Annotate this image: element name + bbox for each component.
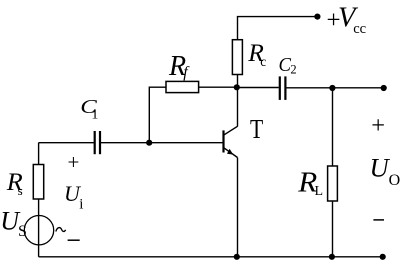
wire RL top [332,88,334,166]
label RL [297,168,323,200]
node RL top junction dot [329,85,335,91]
label Ui [64,181,83,213]
label Rc [247,38,266,69]
label Rf [168,51,190,82]
wire RL bottom [332,201,334,257]
svg-text:1: 1 [91,108,98,123]
resistor RL [328,166,338,201]
svg-text:O: O [389,172,401,189]
label C2 [279,54,297,77]
label minus output [373,219,384,221]
wire Rc bottom to collector node and down to collector elbow [237,75,239,127]
node emitter bottom junction dot [234,254,240,260]
resistor Rf [166,81,199,92]
node Vcc terminal dot [314,14,320,20]
source tilde mark [56,228,66,232]
svg-text:T: T [250,114,264,144]
wire Rf row: left corner, to resistor, to collector node [149,87,237,142]
node output plus terminal dot [381,85,387,91]
svg-text:s: s [18,183,23,198]
transistor T [224,126,238,157]
label Rs [6,169,23,198]
node output minus terminal dot [380,254,386,260]
wire top: Rc top to Vcc terminal [238,17,318,40]
svg-text:cc: cc [353,21,366,37]
svg-text:L: L [315,184,324,199]
label Uo [370,153,401,189]
wire Rs bottom through source to bottom rail [38,199,40,257]
wire C2 to output terminal [287,87,384,89]
label Us [0,207,27,240]
svg-text:i: i [79,196,83,212]
svg-text:c: c [260,54,266,69]
label C1 [80,96,98,123]
node base junction dot [146,140,152,146]
label +Vcc [327,2,367,37]
wire source column top [38,143,40,165]
resistor Rc [232,40,242,75]
node collector junction dot [234,84,240,90]
capacitor C2 [280,76,286,100]
wire bottom rail [39,256,384,258]
svg-text:U: U [370,153,391,183]
wire collector node to C2 [238,87,279,89]
svg-text:+: + [371,112,385,139]
svg-text:S: S [18,223,27,240]
svg-text:2: 2 [290,62,296,76]
svg-text:+: + [68,150,80,174]
node RL bottom junction dot [329,254,335,260]
wire C1 to transistor base [101,142,224,144]
wire input row: source column to C1 [39,142,94,144]
source Us circle [24,216,53,245]
capacitor C1 [95,131,100,154]
wire emitter down to bottom rail [237,158,239,257]
resistor Rs [33,165,43,200]
label minus input [68,239,80,241]
transistor emitter arrow [227,149,233,155]
